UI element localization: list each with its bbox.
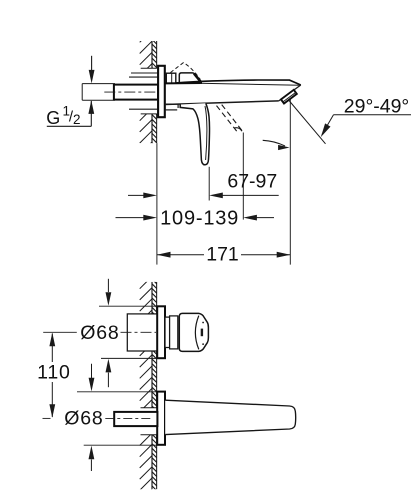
dim arrow up to esc-top bottom (106, 359, 112, 373)
svg-text:2: 2 (73, 112, 81, 127)
stream angled line (289, 101, 326, 144)
G1/2 arrow down (91, 56, 93, 73)
lever raised position (dashed) (170, 63, 200, 80)
wall (lower view) hatched section (140, 30, 157, 334)
svg-text:Ø68: Ø68 (80, 322, 119, 344)
svg-text:G: G (46, 108, 60, 128)
extension line lever tip (208, 167, 210, 201)
pipe centerline (104, 91, 163, 93)
adjustability arrow (263, 140, 285, 146)
escutcheon bottom (lower view) (157, 392, 165, 445)
valve centerline (121, 331, 157, 333)
stream vertical / extension line aerator (289, 100, 291, 265)
knob face arc (195, 316, 198, 350)
G1/2 leader arrow up (90, 101, 92, 126)
aerator (281, 90, 297, 104)
escutcheon plate (upper view) (158, 66, 165, 117)
extension line hidden spout (242, 133, 244, 220)
extension line esc-bottom upper edge (77, 391, 157, 393)
handle knob (179, 313, 208, 351)
hidden aerator arc (234, 128, 242, 132)
extension line esc-top upper edge (99, 305, 157, 307)
extension line esc-bottom lower edge (84, 444, 158, 446)
concealed valve body (lower view) (127, 314, 157, 351)
svg-text:171: 171 (206, 243, 239, 265)
dim arrow up (esc bottom) (89, 446, 95, 460)
spout (lower view) (165, 400, 296, 434)
G1/2 inlet pipe thick section (114, 85, 158, 100)
svg-text:110: 110 (37, 361, 71, 383)
stub centerline (105, 418, 153, 420)
body step (upper view) (166, 73, 176, 83)
lever inner line (205, 106, 207, 160)
hidden spout position (dashed) (217, 106, 238, 133)
wall opening edge top (upper view) (141, 67, 157, 69)
G1/2 inlet pipe thin section (82, 83, 115, 85)
knob slot (201, 329, 203, 337)
lever handle (180, 103, 209, 165)
dimension 110 (51, 334, 53, 363)
svg-text:67-97: 67-97 (227, 170, 277, 192)
spout top inner line (200, 83, 300, 85)
supply stub (lower view) (114, 412, 157, 426)
wall (upper view) hatched section (140, 30, 157, 87)
spout underside tip cut (279, 85, 301, 101)
spout top edge (165, 82, 202, 84)
wall opening edge bottom (upper view) (141, 113, 157, 115)
svg-text:109-139: 109-139 (160, 208, 239, 230)
dim arrow top (esc top) (107, 279, 109, 292)
handle neck (165, 317, 170, 347)
cartridge dome (179, 73, 200, 83)
spout bottom edge (165, 101, 279, 105)
extension line esc-top lower edge (101, 357, 157, 359)
body lower stub (165, 103, 178, 105)
wall opening edges (lower view) (141, 407, 158, 409)
concealed body outline (upper view) (131, 72, 158, 74)
dim arrow down to esc-bottom top (91, 364, 93, 379)
extension line wall surface (156, 143, 158, 265)
escutcheon top (lower view) (157, 306, 165, 358)
svg-text:Ø68: Ø68 (64, 407, 103, 429)
